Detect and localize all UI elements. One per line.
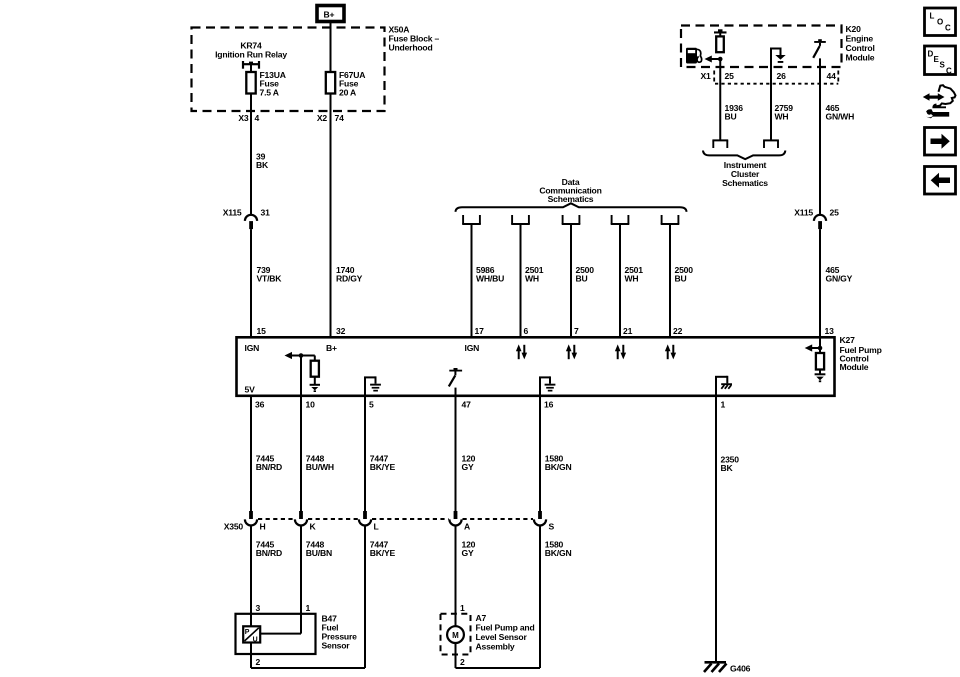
wire 120 GY below X350: [455, 526, 457, 614]
svg-text:X2: X2: [317, 113, 328, 123]
connector X1 strip of K20: [714, 71, 838, 84]
svg-text:7: 7: [574, 326, 579, 336]
svg-text:15: 15: [257, 326, 267, 336]
svg-text:A7: A7: [476, 613, 487, 623]
label wire 7445 BN/RD: [256, 454, 282, 473]
label wire 2759 WH: [775, 103, 794, 122]
svg-text:31: 31: [261, 207, 271, 217]
wire resistor to internal ground pin 10: [314, 377, 316, 384]
label Instrument Cluster Schematics: [722, 160, 768, 188]
svg-text:Underhood: Underhood: [389, 43, 433, 53]
svg-text:47: 47: [462, 400, 472, 410]
internal ground pin 13: [815, 374, 826, 382]
svg-text:13: 13: [825, 326, 835, 336]
svg-text:GY: GY: [462, 548, 474, 558]
svg-text:2: 2: [460, 657, 465, 667]
internal B+ feed arrow and junction pin 10: [285, 352, 315, 361]
fuse F67UA 20A: [326, 72, 335, 94]
wire A7 pin 1 to motor: [455, 614, 457, 626]
node B+ battery feed: [317, 6, 344, 22]
off-page connector data wire 5986 WH/BU: [462, 215, 481, 224]
svg-text:BK/GN: BK/GN: [545, 548, 572, 558]
wire pin 10 junction to module edge: [300, 356, 302, 397]
svg-text:IGN: IGN: [245, 343, 260, 353]
bidirectional data arrows pin area x=670.5: [665, 344, 676, 359]
svg-text:IGN: IGN: [465, 343, 480, 353]
bidirectional data arrows pin area x=620.5: [615, 344, 626, 359]
label B47 Fuel Pressure Sensor: [322, 614, 358, 651]
ground G406 chassis symbol: [704, 662, 727, 672]
svg-text:Sensor: Sensor: [322, 641, 351, 651]
wire B+ feed down to fuse F67UA: [330, 22, 332, 72]
svg-text:BN/RD: BN/RD: [256, 548, 282, 558]
svg-text:B+: B+: [324, 10, 335, 20]
internal ground pin 5: [364, 376, 381, 396]
wire 2500 BU to K27 pin 7: [570, 224, 572, 338]
in-line connector X115 pin 25: [814, 215, 826, 229]
svg-text:BK: BK: [256, 160, 269, 170]
svg-text:G406: G406: [730, 664, 751, 674]
off-page connector data wire 2501 WH: [511, 215, 530, 224]
wire A7 pin 2 return to wire 1580: [456, 643, 541, 668]
internal resistor pin 10: [311, 361, 319, 377]
svg-text:X350: X350: [224, 522, 244, 532]
label wire 1936 BU: [725, 103, 744, 122]
svg-text:74: 74: [335, 113, 345, 123]
label wire 7445 BN/RD: [256, 540, 282, 559]
svg-text:25: 25: [725, 71, 735, 81]
svg-text:WH: WH: [775, 112, 789, 122]
internal ground in K20 (pin 26): [770, 48, 786, 67]
pressure transducer symbol P/U in B47: [243, 626, 260, 643]
svg-text:Module: Module: [840, 362, 869, 372]
internal chassis ground pin 1: [715, 376, 732, 396]
label wire 5986 WH/BU: [476, 265, 504, 284]
svg-text:Module: Module: [846, 53, 875, 63]
label wire 465 GN/WH: [826, 103, 855, 122]
internal pull-up arrow pin 13: [805, 338, 823, 353]
svg-text:H: H: [260, 522, 266, 532]
svg-text:B+: B+: [326, 343, 337, 353]
wire 739 VT/BK X115 to K27 pin 15: [250, 229, 252, 338]
svg-text:3: 3: [256, 603, 261, 613]
off-page connector wire 2759: [763, 140, 779, 148]
off-page connector data wire 2500 BU: [562, 215, 581, 224]
svg-text:WH: WH: [625, 274, 639, 284]
label wire 7447 BK/YE: [370, 454, 396, 473]
svg-text:6: 6: [524, 326, 529, 336]
label wire 7448 BU/WH: [306, 454, 334, 473]
wire B47 pin 1 to transducer: [260, 614, 301, 634]
svg-text:BU: BU: [725, 112, 737, 122]
label F67UA Fuse 20 A: [339, 70, 365, 97]
svg-text:17: 17: [475, 326, 485, 336]
in-line connector X350 cavity K: [295, 511, 307, 526]
label wire 739 VT/BK: [257, 265, 283, 284]
wire 7445 BN/RD below X350: [250, 526, 252, 614]
wire 2759 WH from K20 pin 26: [770, 67, 772, 141]
label wire 120 GY: [462, 454, 476, 473]
svg-text:BU/BN: BU/BN: [306, 548, 332, 558]
junction node and arrow to fuel gauge: [705, 56, 723, 63]
svg-text:Ignition Run Relay: Ignition Run Relay: [215, 50, 287, 60]
internal resistor pin 13: [816, 353, 824, 370]
svg-text:Engine: Engine: [846, 34, 874, 44]
svg-text:BU: BU: [675, 274, 687, 284]
svg-text:S: S: [940, 61, 946, 70]
module K27 Fuel Pump Control Module box: [237, 337, 835, 396]
svg-text:X115: X115: [794, 207, 813, 217]
svg-text:X115: X115: [223, 207, 242, 217]
dashed harness line X350: [258, 518, 533, 520]
label wire 2500 BU: [675, 265, 694, 284]
wire B47 pin 3 into sensor element: [250, 614, 252, 627]
svg-text:1: 1: [306, 603, 311, 613]
wire 7447 BK/YE below X350: [364, 526, 366, 668]
wire 120 GY K27 pin 47 to X350 A: [455, 396, 457, 511]
svg-text:A: A: [464, 522, 470, 532]
svg-text:X3: X3: [238, 113, 249, 123]
svg-text:BK/GN: BK/GN: [545, 462, 572, 472]
svg-text:L: L: [374, 522, 379, 532]
label F13UA Fuse 7.5 A: [260, 70, 286, 97]
svg-text:K: K: [310, 522, 317, 532]
fuel pump driver element in K20 (pin 25): [714, 29, 727, 52]
module K20 Engine Control Module dashed box: [681, 26, 842, 68]
svg-text:5: 5: [369, 400, 374, 410]
svg-text:VT/BK: VT/BK: [257, 274, 283, 284]
internal ground pin 16: [539, 376, 555, 396]
svg-text:Schematics: Schematics: [722, 178, 768, 188]
svg-text:21: 21: [623, 326, 633, 336]
label X115 pin 31: [223, 207, 270, 217]
wire 1580 BK/GN K27 pin 16 to X350 S: [539, 396, 541, 511]
wire 465 GN/GY X115 to K27 pin 13: [819, 229, 821, 338]
sidebar button DESC: [925, 46, 956, 76]
wire 2350 BK K27 pin 1 to G406: [715, 396, 717, 662]
svg-text:5V: 5V: [245, 385, 256, 395]
label wire 1580 BK/GN: [545, 540, 572, 559]
wire 7445 BN/RD K27 pin 36 to X350 H: [250, 396, 252, 511]
wire 1740 RD/GY fuse F67UA to K27 pin 32: [330, 94, 332, 339]
off-page connector data wire 2500 BU: [661, 215, 680, 224]
svg-text:Assembly: Assembly: [476, 642, 515, 652]
svg-text:BN/RD: BN/RD: [256, 462, 282, 472]
label K20 Engine Control Module: [846, 24, 875, 63]
svg-text:P: P: [245, 629, 250, 636]
svg-text:Fuel Pump and: Fuel Pump and: [476, 623, 535, 633]
sidebar button LOC: [925, 8, 956, 36]
wire 7447 BK/YE K27 pin 5 to X350 L: [364, 396, 366, 511]
in-line connector X350 cavity A: [449, 511, 461, 526]
label wire 465 GN/GY: [826, 265, 853, 284]
in-line connector X350 cavity S: [534, 511, 546, 525]
label wire 1740 RD/GY: [336, 265, 363, 284]
svg-text:10: 10: [306, 400, 316, 410]
svg-text:BU: BU: [576, 274, 588, 284]
svg-text:BU/WH: BU/WH: [306, 462, 334, 472]
svg-text:U: U: [253, 636, 258, 643]
sidebar icon vehicle with arrows and wrench: [923, 85, 956, 118]
svg-text:WH: WH: [525, 274, 539, 284]
in-line connector X350 cavity L: [359, 511, 371, 526]
svg-text:2: 2: [256, 657, 261, 667]
svg-text:L: L: [930, 12, 935, 21]
label Data Communication Schematics: [539, 177, 601, 204]
fuel level signal switch in K20 (pin 44): [813, 39, 826, 58]
svg-text:C: C: [945, 24, 951, 33]
svg-text:X1: X1: [701, 71, 712, 81]
wire resistor to ground pin 13: [819, 370, 821, 374]
connector label X3 pin 4: [238, 113, 259, 123]
wire 465 GN/WH from K20 pin 44: [819, 58, 821, 214]
svg-text:1: 1: [721, 400, 726, 410]
svg-text:Control: Control: [846, 43, 875, 53]
label wire 120 GY: [462, 540, 476, 559]
wire 5986 WH/BU to K27 pin 17: [471, 224, 473, 338]
svg-text:44: 44: [827, 71, 837, 81]
brace to instrument cluster schematics: [703, 151, 785, 160]
svg-text:BK: BK: [721, 463, 734, 473]
svg-text:16: 16: [544, 400, 554, 410]
svg-text:K20: K20: [846, 24, 862, 34]
svg-text:GY: GY: [462, 462, 474, 472]
wire 7448 BU/WH K27 pin 10 to X350 K: [300, 396, 302, 511]
label A7 Fuel Pump and Level Sensor Assembly: [476, 613, 535, 652]
svg-text:20 A: 20 A: [339, 87, 356, 97]
svg-text:32: 32: [336, 326, 346, 336]
off-page connector wire 1936: [712, 140, 728, 148]
svg-text:C: C: [946, 67, 952, 76]
component A7 Fuel Pump and Level Sensor Assembly dashed box: [441, 614, 471, 655]
svg-text:1: 1: [460, 603, 465, 613]
wire B47 pin 2 return to wire 7447: [251, 643, 365, 669]
label wire 7448 BU/BN: [306, 540, 332, 559]
fuse F13UA 7.5A: [246, 72, 255, 94]
svg-text:26: 26: [777, 71, 787, 81]
svg-text:Level Sensor: Level Sensor: [476, 632, 528, 642]
svg-text:S: S: [549, 522, 555, 532]
label wire 1580 BK/GN: [545, 454, 572, 473]
svg-text:WH/BU: WH/BU: [476, 274, 504, 284]
wire 1580 BK/GN below X350: [539, 526, 541, 668]
label wire 2501 WH: [525, 265, 544, 284]
svg-text:4: 4: [255, 113, 260, 123]
svg-text:GN/WH: GN/WH: [826, 112, 855, 122]
wire 2501 WH to K27 pin 21: [619, 224, 621, 338]
svg-text:25: 25: [830, 207, 840, 217]
label wire 2500 BU: [576, 265, 595, 284]
svg-text:M: M: [452, 631, 459, 640]
wire 7448 BU/BN below X350: [300, 526, 302, 614]
label wire 7447 BK/YE: [370, 540, 396, 559]
svg-text:7.5 A: 7.5 A: [260, 87, 279, 97]
bidirectional data arrows pin area x=571.5: [566, 344, 577, 359]
svg-text:BK/YE: BK/YE: [370, 548, 396, 558]
bidirectional data arrows pin area x=521.5: [516, 344, 527, 359]
connector label X2 pin 74: [317, 113, 344, 123]
brace data communication schematics: [456, 203, 687, 212]
fuel pump motor M in A7: [447, 626, 464, 643]
wire relay KR74 to fuse F13UA: [250, 64, 252, 72]
internal switch pin 47: [449, 368, 462, 396]
svg-text:O: O: [937, 18, 943, 27]
fuel gauge icon in K20: [686, 48, 702, 64]
label relay KR74 Ignition Run Relay: [215, 41, 287, 60]
svg-text:GN/GY: GN/GY: [826, 274, 853, 284]
wire 39 BK fuse F13UA to X115: [250, 94, 252, 215]
label wire 2350 BK: [721, 455, 740, 474]
in-line connector X115 pin 31: [245, 215, 257, 229]
internal ground pin 10: [310, 385, 320, 392]
in-line connector X350 cavity H: [245, 511, 257, 526]
label wire 39 BK: [256, 152, 269, 171]
svg-text:36: 36: [255, 400, 265, 410]
fuse block X50A dashed box: [192, 28, 385, 112]
label wire 2501 WH: [625, 265, 644, 284]
relay KR74 contact symbol: [243, 61, 259, 69]
label X115 pin 25: [794, 207, 839, 217]
svg-text:BK/YE: BK/YE: [370, 462, 396, 472]
sidebar button back arrow: [925, 167, 956, 195]
label X50A Fuse Block - Underhood: [389, 25, 440, 53]
sidebar button forward arrow: [925, 128, 956, 156]
wire 1936 BU from K20 pin 25: [719, 59, 721, 141]
svg-text:RD/GY: RD/GY: [336, 274, 363, 284]
off-page connector data wire 2501 WH: [611, 215, 630, 224]
wire 2501 WH to K27 pin 6: [520, 224, 522, 338]
wire 2500 BU to K27 pin 22: [669, 224, 671, 338]
label K27 Fuel Pump Control Module: [840, 335, 882, 372]
svg-text:22: 22: [673, 326, 683, 336]
component B47 Fuel Pressure Sensor box: [236, 614, 316, 654]
svg-text:K27: K27: [840, 335, 856, 345]
